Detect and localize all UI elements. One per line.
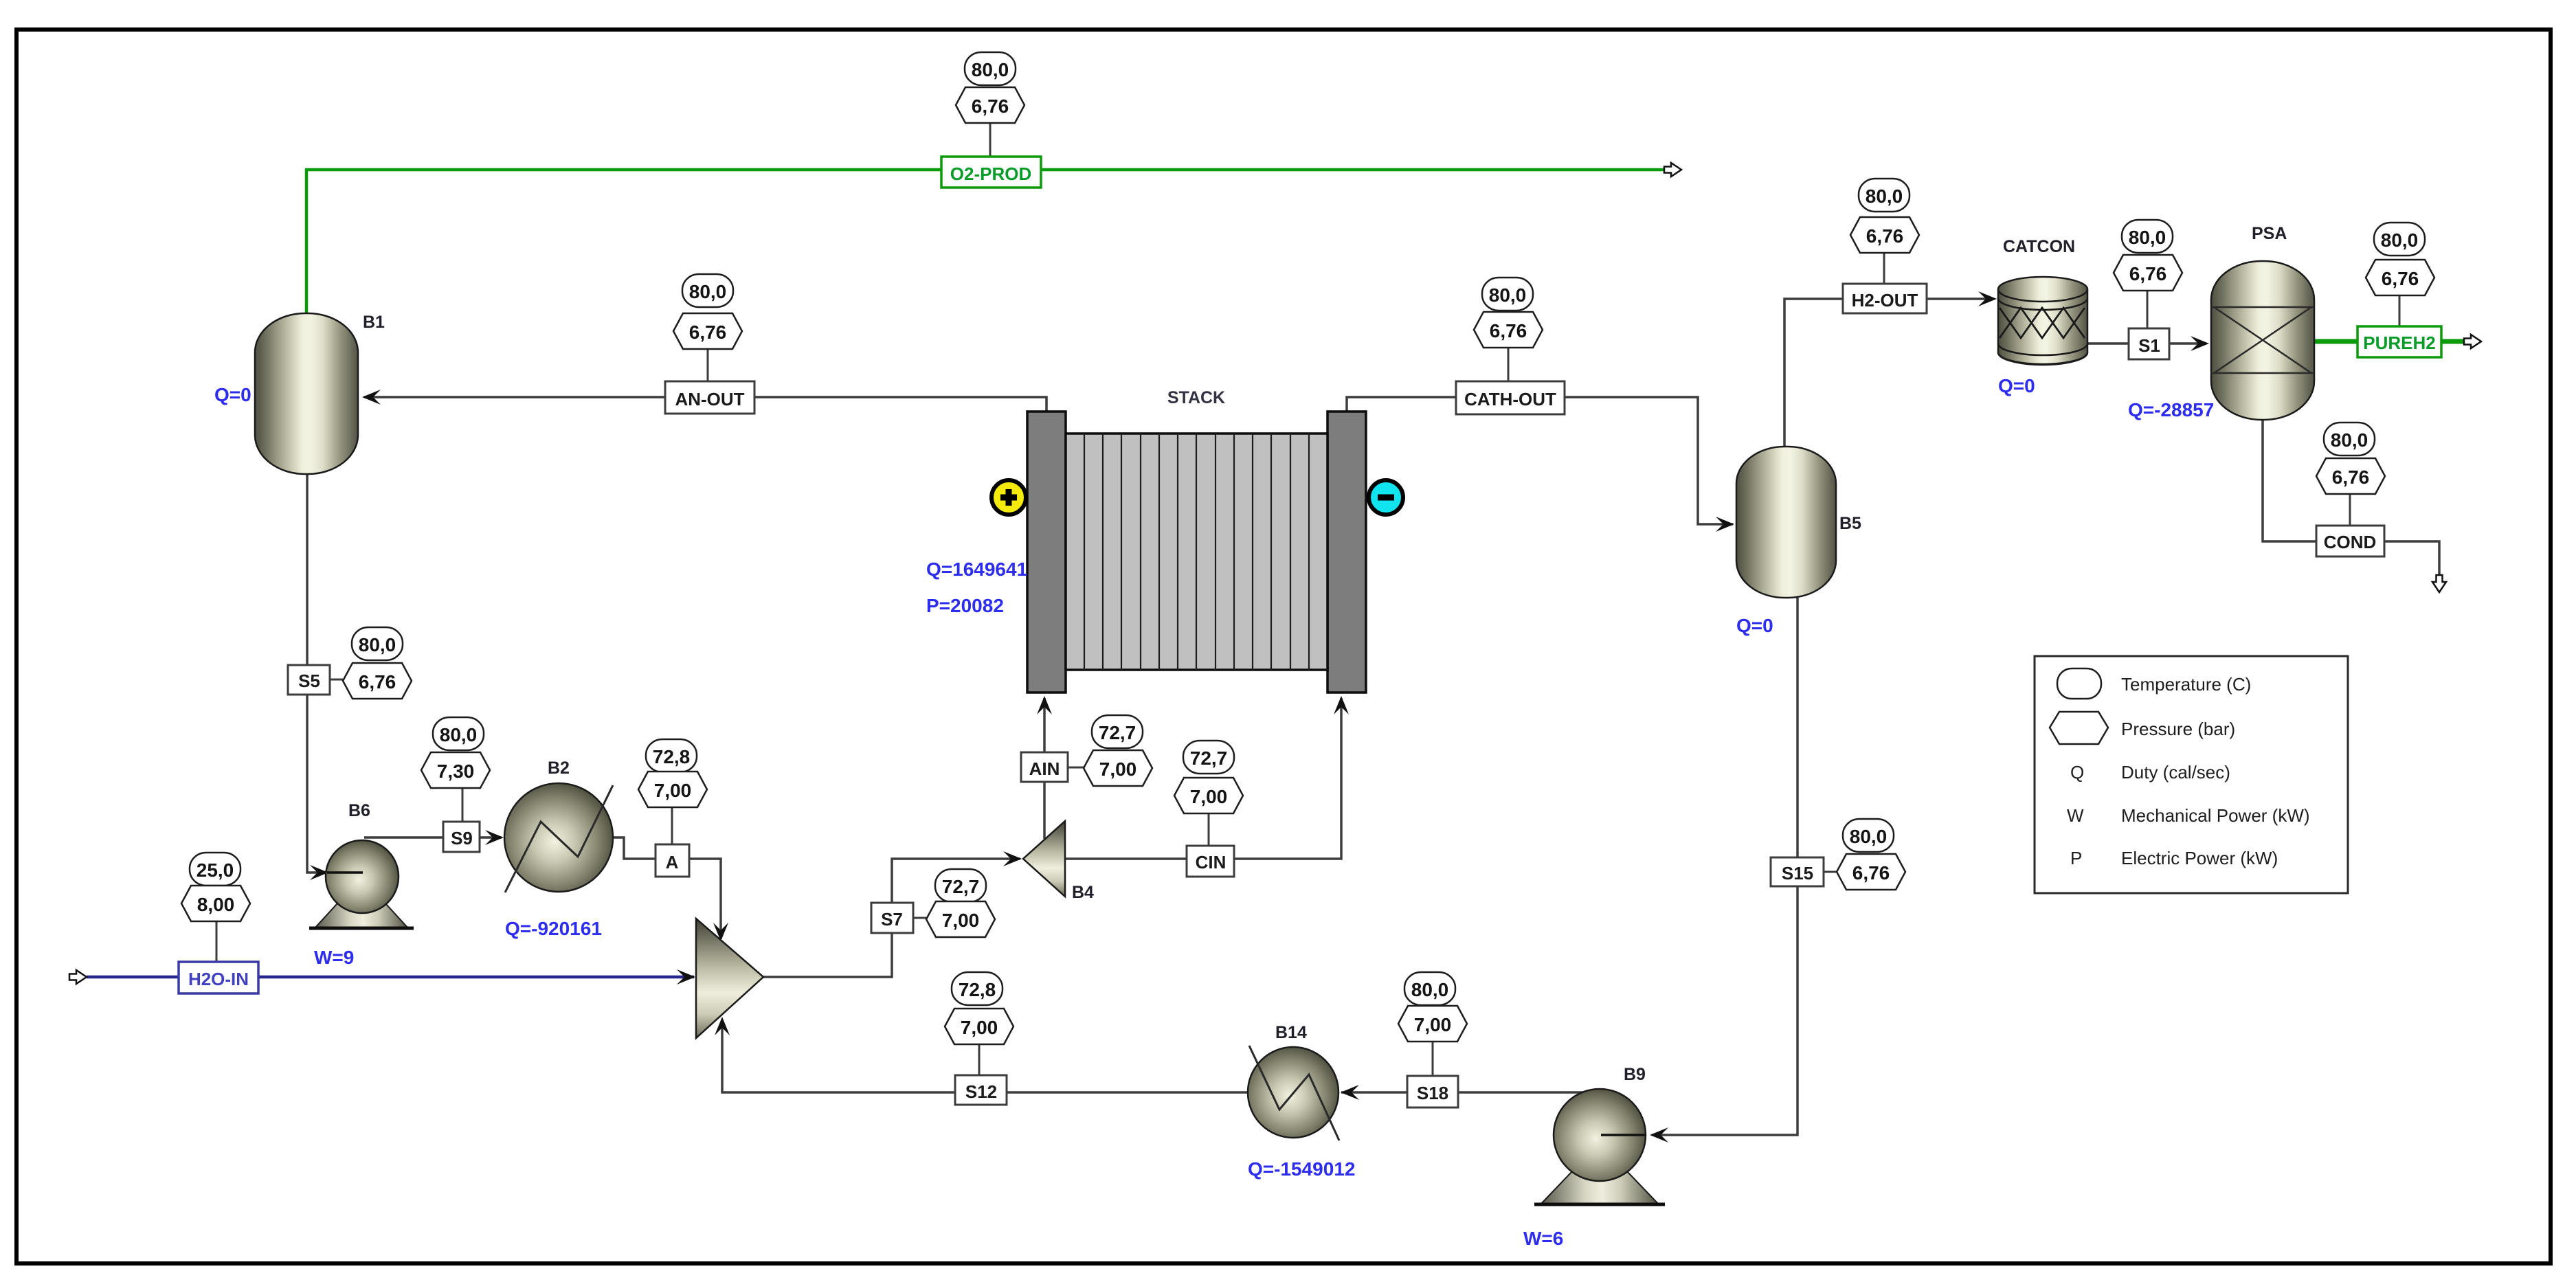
svg-text:P: P xyxy=(2070,848,2082,868)
stream label box CIN xyxy=(1187,846,1234,877)
temperature tag 80,0 (COND) xyxy=(2324,423,2375,456)
pressure tag 6,76 (S15) xyxy=(1837,854,1905,890)
temperature tag 72,7 (S7) xyxy=(935,869,986,902)
pressure tag 6,76 (COND) xyxy=(2316,458,2385,494)
arrowhead into PSA xyxy=(2191,336,2209,351)
wire COND stream (PSA bottom) xyxy=(2263,420,2316,541)
electrolyzer STACK cell block xyxy=(1066,434,1328,670)
stream label box AIN xyxy=(1021,752,1068,782)
tag connector S9 xyxy=(462,788,464,822)
svg-text:6,76: 6,76 xyxy=(2332,466,2370,488)
svg-text:B4: B4 xyxy=(1072,883,1094,902)
svg-text:CATH-OUT: CATH-OUT xyxy=(1464,389,1556,409)
stream label box CATH-OUT xyxy=(1456,381,1565,414)
svg-text:Q=0: Q=0 xyxy=(1998,375,2035,396)
tag connector S5 xyxy=(330,679,343,681)
stream label box H2O-IN xyxy=(179,962,258,993)
stream label box S7 xyxy=(871,903,913,933)
tag connector AIN xyxy=(1068,767,1084,769)
svg-text:PUREH2: PUREH2 xyxy=(2363,333,2435,353)
pressure tag 7,30 (S9) xyxy=(421,752,490,788)
wire AIN stream (B4 to stack left plate) xyxy=(1043,698,1046,839)
svg-text:S12: S12 xyxy=(965,1081,997,1102)
pressure tag 6,76 (S1) xyxy=(2114,255,2182,291)
temperature tag 72,8 (A) xyxy=(646,739,697,772)
svg-text:72,7: 72,7 xyxy=(942,876,980,897)
svg-text:6,76: 6,76 xyxy=(1490,320,1527,341)
stream label box S1 xyxy=(2129,328,2169,359)
svg-text:CATCON: CATCON xyxy=(2003,237,2075,256)
temperature tag 80,0 (CATH-OUT) xyxy=(1482,278,1533,311)
tag connector S18 xyxy=(1432,1042,1434,1076)
heater B14 xyxy=(1248,1047,1339,1138)
pressure tag 7,00 (S7) xyxy=(926,901,995,937)
stream label box S5 xyxy=(288,665,330,695)
svg-text:STACK: STACK xyxy=(1167,388,1225,407)
svg-text:B9: B9 xyxy=(1624,1065,1646,1084)
arrowhead into B1 xyxy=(362,390,381,405)
svg-text:S9: S9 xyxy=(451,828,473,848)
svg-text:80,0: 80,0 xyxy=(1850,826,1888,847)
svg-text:COND: COND xyxy=(2324,532,2377,552)
arrowhead into mixer top edge xyxy=(713,923,728,941)
electrolyzer STACK right end plate xyxy=(1328,412,1366,693)
arrowhead into B9 xyxy=(1650,1127,1668,1143)
cathode minus terminal xyxy=(1369,480,1403,515)
tag connector COND xyxy=(2349,494,2351,526)
arrowhead into mixer bottom edge xyxy=(715,1017,730,1035)
svg-text:7,00: 7,00 xyxy=(1099,758,1137,780)
tag connector H2O-IN xyxy=(216,921,218,962)
stream label box COND xyxy=(2316,526,2384,556)
electrolyzer STACK left end plate xyxy=(1027,412,1066,693)
svg-text:W=9: W=9 xyxy=(314,947,354,968)
svg-text:72,7: 72,7 xyxy=(1099,722,1136,743)
temperature tag 80,0 (PUREH2) xyxy=(2374,223,2425,256)
svg-text:80,0: 80,0 xyxy=(2129,227,2166,248)
open feed arrow H2O-IN start xyxy=(69,970,87,984)
arrowhead into B5 xyxy=(1716,517,1734,532)
heater B2 xyxy=(504,783,613,892)
temperature tag 80,0 (S9) xyxy=(433,717,484,750)
svg-text:H2O-IN: H2O-IN xyxy=(188,969,249,989)
temperature tag 80,0 (S18) xyxy=(1404,972,1455,1005)
stream label box PUREH2 xyxy=(2357,326,2441,357)
svg-text:Duty (cal/sec): Duty (cal/sec) xyxy=(2121,762,2230,783)
temperature tag 80,0 (S15) xyxy=(1843,819,1894,852)
svg-text:72,8: 72,8 xyxy=(959,979,996,1000)
tag connector CIN xyxy=(1208,813,1210,846)
pump B9 base xyxy=(1541,1171,1659,1204)
svg-text:6,76: 6,76 xyxy=(2129,263,2167,284)
pressure tag 7,00 (CIN) xyxy=(1174,778,1243,813)
temperature tag 25,0 (H2O-IN) xyxy=(190,853,240,886)
pump B6 xyxy=(326,840,399,913)
svg-text:Pressure (bar): Pressure (bar) xyxy=(2121,719,2235,739)
legend temperature symbol xyxy=(2057,668,2101,699)
anode plus terminal xyxy=(992,480,1026,515)
svg-text:80,0: 80,0 xyxy=(1866,185,1903,207)
pressure tag 8,00 (H2O-IN) xyxy=(181,886,250,921)
pressure tag 6,76 (O2-PROD) xyxy=(956,87,1024,123)
pressure tag 6,76 (CATH-OUT) xyxy=(1474,312,1543,348)
stream label box S18 xyxy=(1407,1076,1458,1107)
svg-text:80,0: 80,0 xyxy=(972,59,1009,80)
svg-text:S5: S5 xyxy=(298,671,320,691)
svg-text:80,0: 80,0 xyxy=(1489,284,1527,306)
tag connector S12 xyxy=(978,1044,981,1075)
legend box xyxy=(2035,656,2348,893)
svg-text:S15: S15 xyxy=(1782,863,1813,884)
arrowhead into B2 xyxy=(485,830,504,845)
stream label box AN-OUT xyxy=(665,381,754,414)
svg-text:B2: B2 xyxy=(548,758,570,778)
arrowhead into CATCON xyxy=(1978,291,1997,306)
svg-text:6,76: 6,76 xyxy=(2382,268,2419,289)
svg-text:25,0: 25,0 xyxy=(197,859,234,881)
stream label box S12 xyxy=(955,1075,1007,1105)
pressure tag 7,00 (A) xyxy=(638,772,707,807)
wire AN-OUT stream (stack to B1) xyxy=(364,397,1046,412)
wire O2-PROD green stream xyxy=(306,170,1670,313)
pressure tag 6,76 (PUREH2) xyxy=(2366,260,2434,295)
arrowhead into stack left plate bottom xyxy=(1037,696,1052,715)
pressure tag 6,76 (H2-OUT) xyxy=(1850,217,1919,253)
svg-text:Q=-28857: Q=-28857 xyxy=(2128,399,2214,420)
temperature tag 72,7 (AIN) xyxy=(1092,715,1143,748)
pressure tag 6,76 (AN-OUT) xyxy=(673,313,742,349)
svg-text:S18: S18 xyxy=(1417,1083,1448,1103)
svg-text:7,00: 7,00 xyxy=(654,780,692,801)
pump B6 base xyxy=(315,903,408,928)
arrowhead into B14 xyxy=(1341,1085,1359,1100)
wire A stream (B2 to A to mixer) xyxy=(614,837,656,859)
arrowhead into B4 apex xyxy=(1003,851,1022,866)
wire CATH-OUT stream (stack to B5) xyxy=(1347,397,1733,524)
svg-text:CIN: CIN xyxy=(1196,852,1227,873)
wire S7 stream (mixer to B4) xyxy=(763,859,1020,977)
stream label box S9 xyxy=(443,822,480,852)
arrowhead into mixer left edge (H2O-IN) xyxy=(677,969,695,985)
legend pressure symbol xyxy=(2050,712,2108,744)
svg-text:Q=-920161: Q=-920161 xyxy=(505,918,602,939)
svg-text:S1: S1 xyxy=(2138,335,2160,356)
svg-text:80,0: 80,0 xyxy=(689,281,727,302)
pressure tag 6,76 (S5) xyxy=(343,663,412,699)
stream label box A xyxy=(656,844,689,877)
svg-text:80,0: 80,0 xyxy=(1411,979,1449,1000)
wire H2O-IN blue stream xyxy=(87,976,694,979)
svg-text:6,76: 6,76 xyxy=(689,322,727,343)
splitter B4 xyxy=(1023,821,1065,897)
svg-text:72,7: 72,7 xyxy=(1190,747,1228,769)
temperature tag 80,0 (O2-PROD) xyxy=(965,52,1016,85)
tag connector S7 xyxy=(913,917,926,919)
svg-text:A: A xyxy=(666,852,679,873)
svg-text:B6: B6 xyxy=(348,801,370,820)
wire PUREH2 green stream xyxy=(2314,339,2469,344)
svg-text:Q=1649641: Q=1649641 xyxy=(926,559,1027,580)
arrowhead into stack right plate bottom xyxy=(1334,696,1349,715)
wire S18 stream (B9 to B14) xyxy=(1341,1091,1604,1094)
svg-text:PSA: PSA xyxy=(2252,224,2287,243)
svg-text:Q=-1549012: Q=-1549012 xyxy=(1248,1158,1355,1180)
wire S15 stream (B5 bottom to B9) xyxy=(1652,598,1797,1135)
svg-text:7,00: 7,00 xyxy=(1190,786,1228,807)
svg-text:8,00: 8,00 xyxy=(197,894,235,915)
pressure tag 7,00 (AIN) xyxy=(1084,750,1152,786)
svg-text:6,76: 6,76 xyxy=(359,671,396,693)
tag connector O2-PROD xyxy=(989,123,992,157)
CATCON catalyst lattice xyxy=(2000,308,2085,338)
svg-text:AN-OUT: AN-OUT xyxy=(675,389,744,409)
svg-text:Q=0: Q=0 xyxy=(214,384,251,405)
adsorber PSA xyxy=(2211,261,2314,420)
temperature tag 72,8 (S12) xyxy=(952,972,1003,1005)
tag connector A xyxy=(671,807,673,844)
tag connector S15 xyxy=(1824,871,1837,873)
arrowhead into B6 xyxy=(310,865,328,880)
svg-text:Temperature (C): Temperature (C) xyxy=(2121,674,2251,695)
pump B9 xyxy=(1554,1089,1646,1181)
reactor CATCON xyxy=(1998,277,2087,365)
temperature tag 80,0 (AN-OUT) xyxy=(682,274,733,307)
svg-text:80,0: 80,0 xyxy=(359,634,396,655)
svg-text:B5: B5 xyxy=(1839,514,1861,533)
svg-text:72,8: 72,8 xyxy=(653,746,691,767)
tag connector S1 xyxy=(2147,291,2149,328)
svg-text:B1: B1 xyxy=(363,313,385,332)
temperature tag 72,7 (CIN) xyxy=(1183,741,1234,774)
tag connector PUREH2 xyxy=(2399,295,2401,326)
pressure tag 7,00 (S12) xyxy=(945,1009,1013,1044)
stream label box O2-PROD xyxy=(941,157,1041,188)
temperature tag 80,0 (S1) xyxy=(2122,220,2173,253)
svg-text:6,76: 6,76 xyxy=(972,95,1009,117)
flash drum B1 xyxy=(255,313,358,474)
svg-text:80,0: 80,0 xyxy=(440,724,478,745)
svg-text:W: W xyxy=(2067,805,2084,826)
tag connector AN-OUT xyxy=(707,349,709,381)
svg-text:B14: B14 xyxy=(1275,1023,1307,1042)
open product arrow PUREH2 end xyxy=(2464,335,2481,348)
wire S12 stream (B14 to mixer) xyxy=(722,1020,1249,1092)
svg-text:80,0: 80,0 xyxy=(2331,429,2368,451)
tag connector CATH-OUT xyxy=(1508,348,1510,381)
wire CIN stream (B4 to stack right plate) xyxy=(1065,698,1341,859)
open product arrow COND end (down) xyxy=(2432,575,2446,592)
mixer B3 xyxy=(696,919,763,1038)
wire S1 stream (CATCON to PSA) xyxy=(2087,342,2206,345)
svg-text:7,00: 7,00 xyxy=(961,1017,998,1038)
pressure tag 7,00 (S18) xyxy=(1398,1006,1467,1042)
wire S9 stream (B6 to B2) xyxy=(364,836,502,839)
svg-text:7,30: 7,30 xyxy=(437,761,475,782)
svg-text:H2-OUT: H2-OUT xyxy=(1852,290,1918,311)
svg-text:W=6: W=6 xyxy=(1523,1228,1563,1249)
temperature tag 80,0 (H2-OUT) xyxy=(1859,179,1909,212)
stream label box S15 xyxy=(1771,857,1824,886)
svg-text:Electric Power (kW): Electric Power (kW) xyxy=(2121,848,2278,868)
svg-text:7,00: 7,00 xyxy=(1414,1014,1452,1035)
svg-text:6,76: 6,76 xyxy=(1866,225,1904,247)
svg-text:80,0: 80,0 xyxy=(2381,229,2419,251)
temperature tag 80,0 (S5) xyxy=(352,627,403,660)
svg-text:7,00: 7,00 xyxy=(942,910,980,931)
svg-text:Mechanical Power (kW): Mechanical Power (kW) xyxy=(2121,805,2310,826)
svg-text:P=20082: P=20082 xyxy=(926,595,1004,616)
wire S5 stream (B1 bottom to B6) xyxy=(307,474,326,873)
stream label box H2-OUT xyxy=(1843,284,1927,313)
svg-text:Q=0: Q=0 xyxy=(1736,615,1773,636)
svg-text:AIN: AIN xyxy=(1029,758,1060,779)
tag connector H2-OUT xyxy=(1883,253,1885,284)
wire H2-OUT stream (B5 to CATCON) xyxy=(1784,299,1993,447)
open product arrow O2-PROD end xyxy=(1664,163,1681,177)
svg-text:S7: S7 xyxy=(881,909,903,930)
svg-text:Q: Q xyxy=(2070,762,2084,783)
flash drum B5 xyxy=(1736,447,1836,598)
svg-text:O2-PROD: O2-PROD xyxy=(950,164,1031,184)
svg-text:6,76: 6,76 xyxy=(1852,862,1890,884)
